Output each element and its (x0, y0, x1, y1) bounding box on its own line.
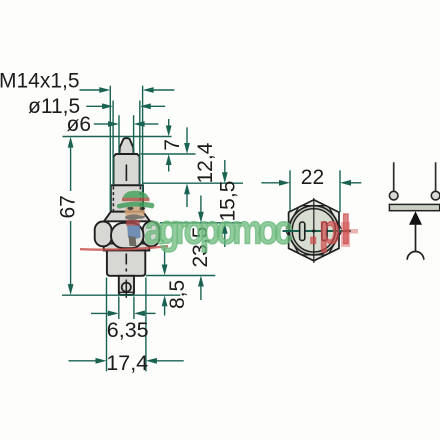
arrowhead 17.4 right (146, 358, 157, 364)
figure hat crown (122, 191, 150, 201)
hex right lobe (143, 222, 160, 247)
slot right (322, 222, 327, 241)
arrowhead M14 left (99, 87, 110, 93)
svg-text:M14x1,5: M14x1,5 (0, 70, 80, 93)
dim 8.5 bottom tail (164, 306, 166, 316)
dim 17.4 ext left (106, 278, 108, 372)
center dot (312, 229, 315, 232)
arrowhead o11.5 right (140, 103, 151, 109)
arrowhead 17.4 left (96, 358, 107, 364)
svg-text:8,5: 8,5 (166, 280, 189, 309)
tail o11.5 right (149, 105, 165, 107)
figure face (125, 205, 145, 219)
thread dashed line left (112, 187, 114, 211)
actuator shaft (415, 224, 417, 252)
line L4 hex top (160, 222, 243, 224)
thread section (111, 185, 143, 211)
chamfer line bottom (301, 254, 327, 256)
contact circle left (389, 191, 398, 200)
arrowhead M14 right (143, 87, 154, 93)
svg-text:22: 22 (301, 166, 324, 189)
tail o6 right (143, 123, 158, 125)
watermark red swoosh (80, 246, 168, 249)
horizontal centerline green (283, 230, 352, 232)
dim 6.35 left tail (91, 312, 108, 314)
figure collar red (126, 220, 140, 226)
watermark figure (117, 191, 155, 246)
hex center lobe (111, 223, 144, 248)
dim 15.5 bottom tail (224, 233, 226, 248)
ext 22 right (339, 170, 341, 212)
actuator arc (407, 252, 424, 260)
arrowhead 7 down (166, 126, 172, 137)
figure mustache (125, 214, 145, 220)
arrowhead 6.35 right (134, 311, 145, 317)
dim 7 top tail (168, 119, 170, 127)
line L2 shoulder (141, 153, 196, 155)
figure hat band (122, 198, 150, 201)
line L1 tip top (63, 136, 172, 138)
flare collar (104, 212, 150, 222)
arrowhead 15.5 up (222, 223, 228, 234)
svg-text:17,4: 17,4 (106, 351, 148, 375)
dim 22 right tail (351, 182, 362, 184)
arrowhead 23.5 down (198, 212, 204, 223)
leader M14 (80, 89, 101, 91)
hexagon outline (289, 200, 339, 261)
ext line M14 right (142, 86, 144, 211)
arrowhead 22 right (340, 180, 351, 186)
arrowhead 8.5 up (162, 295, 168, 306)
svg-text:6,35: 6,35 (107, 318, 149, 342)
terminal circle (122, 283, 131, 292)
svg-text:agropomoc: agropomoc (145, 206, 292, 252)
inner circle (292, 209, 335, 252)
dim 67 line upper (70, 147, 72, 192)
slot left (300, 222, 305, 241)
dim 17.4 left tail (69, 360, 97, 362)
ext line o11.5 right (139, 101, 141, 186)
line L3 thread top (143, 182, 244, 184)
pin centerline (125, 280, 127, 298)
figure eye right (140, 207, 146, 211)
dim 23.5 bottom tail (200, 286, 202, 301)
chamfer line top (301, 205, 327, 207)
chamfer line lower-left (286, 231, 299, 254)
contact bar (389, 204, 439, 210)
arrowhead 67 down (68, 284, 74, 295)
sensor body side view (95, 138, 160, 295)
thread dashed line right (139, 187, 141, 211)
wire right (435, 162, 437, 191)
arrowhead 12.4 down (184, 143, 190, 154)
svg-text:67: 67 (57, 195, 80, 218)
ext line o6 right (133, 115, 135, 153)
actuator arrowhead (409, 211, 422, 225)
dim 17.4 right tail (157, 360, 184, 362)
dim 12.4 bottom tail (186, 193, 188, 207)
arrowhead 7 up (166, 154, 172, 165)
dim 6.35 ext left (118, 297, 120, 320)
chamfer line upper-right (329, 207, 342, 230)
pin step line (119, 291, 134, 293)
terminal pin (119, 276, 134, 295)
dim 7 bottom tail (168, 165, 170, 172)
dim 8.5 top tail (164, 248, 166, 266)
lower cylinder (107, 250, 145, 275)
outer circle (289, 206, 338, 255)
figure hat brim (117, 201, 155, 208)
tip dome (119, 138, 133, 154)
cylinder centerline (125, 254, 127, 275)
vertical centerline (313, 198, 315, 263)
figure body blue (127, 223, 141, 239)
hex collar band (104, 244, 150, 251)
leader o11.5 (86, 105, 104, 107)
hex left lobe (95, 222, 112, 247)
tail M14 right (152, 89, 174, 91)
svg-text:7: 7 (161, 139, 184, 151)
dim 22 left tail (261, 182, 279, 184)
ext 22 left (289, 170, 291, 212)
dim 6.35 ext right (133, 297, 135, 320)
dim 67 line lower (70, 221, 72, 286)
arrowhead 6.35 left (108, 311, 119, 317)
line L5 cylinder bottom (146, 275, 215, 277)
svg-text:ø6: ø6 (67, 113, 92, 136)
line L6 pin bottom (62, 294, 180, 296)
arrowhead o11.5 left (102, 103, 113, 109)
ext line M14 left (109, 86, 111, 211)
svg-text:12,4: 12,4 (194, 142, 217, 183)
chamfer line upper-left (286, 207, 299, 230)
dim 17.4 ext right (145, 278, 147, 372)
figure eye left (127, 207, 133, 211)
wire left (393, 162, 395, 191)
ext line o11.5 left (112, 101, 114, 186)
arrowhead 23.5 up (198, 276, 204, 287)
arrowhead 12.4 up (184, 183, 190, 194)
leader o6 (94, 123, 110, 125)
arrowhead o6 left (108, 121, 119, 127)
figure arm dark (129, 236, 137, 246)
arrowhead o6 right (134, 121, 145, 127)
arrowhead 8.5 down (162, 265, 168, 276)
shaft (114, 154, 140, 185)
chamfer line lower-right (329, 231, 342, 254)
shaft centerline (125, 165, 127, 182)
ext line o6 left (118, 115, 120, 153)
dim 6.35 right tail (145, 312, 156, 314)
dim 23.5 top tail (200, 196, 202, 214)
watermark text agropomoc (145, 206, 359, 252)
arrowhead 15.5 down (222, 172, 228, 183)
contact circle right (431, 191, 440, 200)
arrowhead 67 up (68, 137, 74, 148)
arrowhead 22 left (279, 180, 290, 186)
dim 12.4 top tail (186, 127, 188, 144)
watermark red bar through l (341, 222, 350, 247)
dim 15.5 top tail (224, 160, 226, 174)
